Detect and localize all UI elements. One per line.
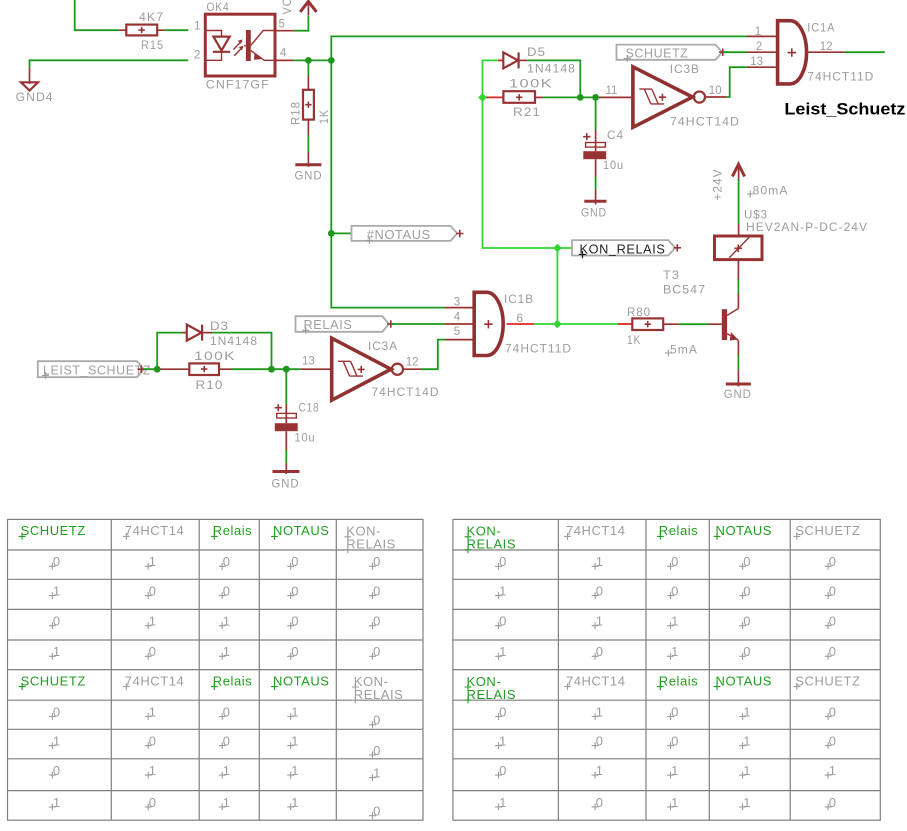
resistor R80 xyxy=(618,323,632,325)
svg-text:5: 5 xyxy=(454,326,460,338)
svg-text:0: 0 xyxy=(149,795,157,810)
resistor R18 xyxy=(307,60,309,76)
wire IC3B out to IC1A pin13 xyxy=(706,96,726,98)
wire D5 cathode down to R21 right node xyxy=(527,60,580,97)
svg-text:D5: D5 xyxy=(527,45,546,59)
svg-text:GND: GND xyxy=(295,169,323,183)
junction at R18 top xyxy=(305,57,312,64)
svg-text:0: 0 xyxy=(499,554,507,569)
IC3B input pin stub xyxy=(599,96,633,98)
svg-text:C18: C18 xyxy=(299,401,320,415)
svg-text:74HCT11D: 74HCT11D xyxy=(807,70,874,84)
svg-text:0: 0 xyxy=(223,554,231,569)
svg-text:1: 1 xyxy=(829,763,837,778)
svg-text:0: 0 xyxy=(373,614,381,629)
svg-text:Relais: Relais xyxy=(213,523,252,538)
svg-text:1: 1 xyxy=(149,614,157,629)
svg-text:0: 0 xyxy=(829,644,837,659)
svg-text:74HCT14: 74HCT14 xyxy=(566,523,626,538)
svg-text:0: 0 xyxy=(373,713,381,728)
resistor R10 xyxy=(161,368,233,370)
junction R21 left (highlighted) xyxy=(478,93,487,102)
svg-text:0: 0 xyxy=(596,734,604,749)
svg-text:3: 3 xyxy=(454,297,460,309)
wire SCHUETZ to IC1A pin2 xyxy=(723,51,747,53)
svg-text:GND: GND xyxy=(272,477,300,491)
svg-text:1: 1 xyxy=(373,766,381,781)
svg-text:1: 1 xyxy=(671,644,679,659)
svg-text:NOTAUS: NOTAUS xyxy=(716,523,773,538)
svg-text:4: 4 xyxy=(280,47,287,59)
wire IC1B output xyxy=(507,323,535,325)
svg-text:1K: 1K xyxy=(317,109,331,124)
IC3B hysteresis symbol xyxy=(639,89,664,104)
svg-text:1N4148: 1N4148 xyxy=(210,334,258,348)
junction at #NOTAUS xyxy=(328,230,335,237)
svg-text:C4: C4 xyxy=(607,128,624,142)
svg-text:1: 1 xyxy=(149,704,157,719)
svg-text:OK4: OK4 xyxy=(207,0,230,14)
wire R80 to T3 base xyxy=(679,323,709,325)
svg-text:11: 11 xyxy=(606,85,618,97)
svg-text:0: 0 xyxy=(149,734,157,749)
label KON_RELAIS xyxy=(572,240,675,255)
capacitor C4 xyxy=(595,97,597,130)
svg-text:1: 1 xyxy=(755,26,761,38)
svg-text:RELAIS: RELAIS xyxy=(467,687,517,702)
svg-text:T3: T3 xyxy=(663,268,680,282)
optocoupler OK4 box xyxy=(205,14,275,76)
ground GND below R18 xyxy=(295,163,321,166)
svg-text:R21: R21 xyxy=(513,105,541,119)
svg-text:12: 12 xyxy=(406,356,419,368)
svg-text:74HCT11D: 74HCT11D xyxy=(505,341,572,355)
svg-text:CNF17GF: CNF17GF xyxy=(206,78,270,92)
wire VCC to OK4 pin5 xyxy=(294,15,309,31)
junction IC1B output xyxy=(553,320,562,329)
svg-text:0: 0 xyxy=(499,763,507,778)
svg-text:80mA: 80mA xyxy=(753,184,789,198)
svg-text:SCHUETZ: SCHUETZ xyxy=(21,673,86,688)
svg-text:0: 0 xyxy=(743,554,751,569)
svg-text:NOTAUS: NOTAUS xyxy=(273,673,330,688)
svg-text:IC3B: IC3B xyxy=(670,62,700,76)
svg-text:0: 0 xyxy=(291,614,299,629)
svg-text:0: 0 xyxy=(743,614,751,629)
wire top-left vertical into R15 xyxy=(75,0,119,30)
svg-text:+24V: +24V xyxy=(711,169,725,201)
svg-text:RELAIS: RELAIS xyxy=(467,537,517,552)
wire RELAIS to IC1B pin4 xyxy=(391,323,445,325)
svg-text:1: 1 xyxy=(596,554,604,569)
resistor R21 xyxy=(483,96,504,98)
svg-text:VCC: VCC xyxy=(280,0,294,15)
svg-text:1K: 1K xyxy=(627,333,641,347)
svg-text:0: 0 xyxy=(499,704,507,719)
svg-text:100K: 100K xyxy=(194,349,236,363)
svg-text:10u: 10u xyxy=(295,431,316,445)
svg-text:0: 0 xyxy=(829,734,837,749)
wire R18 to GND xyxy=(307,135,309,152)
svg-text:0: 0 xyxy=(373,743,381,758)
svg-text:SCHUETZ: SCHUETZ xyxy=(795,523,860,538)
svg-text:10u: 10u xyxy=(603,158,624,172)
svg-text:0: 0 xyxy=(829,554,837,569)
svg-text:5: 5 xyxy=(279,18,285,30)
svg-text:1: 1 xyxy=(291,704,299,719)
label #NOTAUS xyxy=(352,226,458,241)
svg-text:0: 0 xyxy=(373,584,381,599)
svg-text:0: 0 xyxy=(53,554,61,569)
svg-text:NOTAUS: NOTAUS xyxy=(716,673,773,688)
op-amp IC1B (AND gate 74HCT11D) xyxy=(445,308,474,340)
junction at vertical net xyxy=(328,57,335,64)
svg-text:1: 1 xyxy=(194,20,200,32)
svg-text:0: 0 xyxy=(53,614,61,629)
wire R15 to OK4 pin1 xyxy=(165,29,189,31)
wire R21 to IC3B pin11 xyxy=(543,96,599,98)
wire LEIST_SCHUETZ to R10 xyxy=(144,368,161,370)
junction C4 branch xyxy=(592,94,599,101)
svg-text:0: 0 xyxy=(149,644,157,659)
svg-text:IC1A: IC1A xyxy=(807,21,835,35)
svg-text:1: 1 xyxy=(671,614,679,629)
label SCHUETZ xyxy=(617,45,723,60)
svg-text:SCHUETZ: SCHUETZ xyxy=(626,47,689,61)
svg-text:RELAIS: RELAIS xyxy=(346,537,396,552)
svg-text:0: 0 xyxy=(373,804,381,819)
junction D3 right xyxy=(268,366,275,373)
svg-text:0: 0 xyxy=(223,704,231,719)
svg-text:LEIST_SCHUETZ: LEIST_SCHUETZ xyxy=(43,363,151,377)
svg-text:4: 4 xyxy=(454,311,461,323)
wire T3 emitter to GND xyxy=(737,340,739,355)
wire OK4 pin4 east xyxy=(275,59,293,61)
svg-text:IC3A: IC3A xyxy=(368,339,398,353)
svg-text:74HCT14: 74HCT14 xyxy=(125,523,185,538)
svg-text:#NOTAUS: #NOTAUS xyxy=(367,228,431,242)
wire R10 to IC3A pin13 xyxy=(232,368,301,370)
wire main vertical net to IC1A pin1 and IC1B pin3 xyxy=(331,36,747,307)
svg-text:5mA: 5mA xyxy=(670,343,698,357)
junction KON_RELAIS xyxy=(553,244,562,253)
svg-text:HEV2AN-P-DC-24V: HEV2AN-P-DC-24V xyxy=(746,220,868,234)
svg-text:0: 0 xyxy=(291,644,299,659)
svg-text:0: 0 xyxy=(53,763,61,778)
svg-text:74HCT14D: 74HCT14D xyxy=(372,385,440,399)
svg-text:GND: GND xyxy=(581,206,607,220)
wire highlighted net KON_RELAIS xyxy=(483,97,573,248)
svg-text:1: 1 xyxy=(671,795,679,810)
svg-text:Leist_Schuetz: Leist_Schuetz xyxy=(784,100,905,118)
svg-text:0: 0 xyxy=(223,584,231,599)
svg-text:1: 1 xyxy=(53,644,61,659)
supply VCC arrow xyxy=(300,1,316,12)
svg-text:1: 1 xyxy=(743,795,751,810)
svg-text:1: 1 xyxy=(499,734,507,749)
svg-text:0: 0 xyxy=(671,704,679,719)
svg-text:R80: R80 xyxy=(627,305,651,319)
svg-text:0: 0 xyxy=(829,704,837,719)
svg-text:0: 0 xyxy=(223,734,231,749)
svg-text:R10: R10 xyxy=(196,378,224,392)
svg-text:IC1B: IC1B xyxy=(504,292,534,306)
svg-text:D3: D3 xyxy=(210,319,229,333)
svg-text:Relais: Relais xyxy=(213,673,252,688)
svg-text:NOTAUS: NOTAUS xyxy=(273,523,330,538)
svg-text:13: 13 xyxy=(750,56,763,68)
svg-text:1: 1 xyxy=(499,584,507,599)
wire D3 cathode down xyxy=(212,333,272,370)
svg-text:1: 1 xyxy=(223,763,231,778)
wire C4 to GND xyxy=(595,177,597,190)
svg-text:1: 1 xyxy=(291,795,299,810)
ground GND below T3 xyxy=(726,383,751,386)
inverter IC3B (74HCT14D) xyxy=(633,67,693,128)
wire IC3A out to IC1B pin5 xyxy=(403,368,421,370)
svg-text:74HCT14: 74HCT14 xyxy=(566,673,626,688)
OK4 light arrows xyxy=(233,41,243,56)
svg-text:2: 2 xyxy=(194,50,200,62)
svg-text:1: 1 xyxy=(743,763,751,778)
relay coil U$3 xyxy=(715,236,763,260)
OK4 LED xyxy=(205,31,221,61)
svg-text:1: 1 xyxy=(743,734,751,749)
svg-text:BC547: BC547 xyxy=(663,283,706,297)
svg-text:1N4148: 1N4148 xyxy=(527,62,576,76)
svg-text:1: 1 xyxy=(499,644,507,659)
svg-text:74HCT14: 74HCT14 xyxy=(125,673,185,688)
svg-text:0: 0 xyxy=(373,554,381,569)
resistor R15 xyxy=(119,29,165,31)
svg-text:1: 1 xyxy=(671,763,679,778)
ground GND below C4 xyxy=(584,200,606,203)
wire OK4 pin2 to GND4 xyxy=(30,60,189,67)
svg-text:KON_RELAIS: KON_RELAIS xyxy=(580,242,666,256)
svg-text:R15: R15 xyxy=(141,38,164,52)
svg-text:0: 0 xyxy=(596,795,604,810)
svg-text:13: 13 xyxy=(302,356,315,368)
inverter IC3A (74HCT14D) xyxy=(301,368,332,370)
svg-text:1: 1 xyxy=(223,795,231,810)
svg-text:0: 0 xyxy=(671,734,679,749)
diode D3 xyxy=(157,333,182,370)
svg-text:R18: R18 xyxy=(288,101,302,125)
svg-text:GND4: GND4 xyxy=(16,90,54,104)
svg-text:0: 0 xyxy=(829,614,837,629)
svg-text:0: 0 xyxy=(671,584,679,599)
wire stub to #NOTAUS label xyxy=(331,232,351,234)
svg-text:Relais: Relais xyxy=(659,673,698,688)
svg-text:0: 0 xyxy=(743,644,751,659)
ground GND4 xyxy=(29,68,31,84)
svg-text:1: 1 xyxy=(291,763,299,778)
svg-text:74HCT14D: 74HCT14D xyxy=(670,114,740,128)
OK4 phototransistor xyxy=(246,30,251,61)
ground GND below C18 xyxy=(273,470,300,473)
diode D5 xyxy=(483,60,498,97)
junction C18 branch xyxy=(283,366,290,373)
svg-text:1: 1 xyxy=(149,763,157,778)
svg-text:0: 0 xyxy=(291,584,299,599)
svg-text:0: 0 xyxy=(499,614,507,629)
svg-text:0: 0 xyxy=(596,584,604,599)
svg-text:1: 1 xyxy=(223,644,231,659)
svg-text:1: 1 xyxy=(53,734,61,749)
svg-text:100K: 100K xyxy=(509,77,553,91)
wire IC1A output xyxy=(807,51,845,53)
svg-text:4K7: 4K7 xyxy=(139,10,164,24)
wire C18 to GND xyxy=(285,450,287,463)
svg-text:0: 0 xyxy=(53,704,61,719)
truth table left xyxy=(8,519,424,820)
svg-text:0: 0 xyxy=(291,554,299,569)
svg-text:12: 12 xyxy=(820,41,833,53)
label RELAIS xyxy=(296,316,390,332)
svg-text:1: 1 xyxy=(149,554,157,569)
wire T3 collector to relay xyxy=(737,294,739,309)
svg-text:0: 0 xyxy=(829,795,837,810)
svg-text:SCHUETZ: SCHUETZ xyxy=(21,523,86,538)
svg-text:RELAIS: RELAIS xyxy=(304,318,353,332)
svg-text:1: 1 xyxy=(223,614,231,629)
svg-text:1: 1 xyxy=(743,704,751,719)
junction D3 branch xyxy=(154,366,161,373)
svg-text:RELAIS: RELAIS xyxy=(354,687,404,702)
svg-text:1: 1 xyxy=(499,795,507,810)
svg-text:1: 1 xyxy=(596,614,604,629)
svg-text:0: 0 xyxy=(596,644,604,659)
svg-text:0: 0 xyxy=(671,554,679,569)
svg-text:GND: GND xyxy=(724,387,752,401)
op-amp IC1A (AND gate 74HCT11D) xyxy=(747,36,777,67)
supply +24V arrow xyxy=(732,164,744,176)
svg-text:1: 1 xyxy=(53,584,61,599)
truth table right xyxy=(453,519,880,820)
label LEIST_SCHUETZ xyxy=(38,361,144,377)
svg-text:2: 2 xyxy=(756,41,762,53)
svg-text:0: 0 xyxy=(149,584,157,599)
junction D5 cathode xyxy=(577,94,584,101)
svg-text:0: 0 xyxy=(373,644,381,659)
svg-text:Relais: Relais xyxy=(659,523,698,538)
svg-text:10: 10 xyxy=(709,85,722,97)
capacitor C18 xyxy=(285,369,287,404)
svg-text:0: 0 xyxy=(829,584,837,599)
svg-text:1: 1 xyxy=(53,795,61,810)
svg-text:1: 1 xyxy=(291,734,299,749)
svg-text:1: 1 xyxy=(596,704,604,719)
svg-text:SCHUETZ: SCHUETZ xyxy=(795,673,860,688)
svg-text:0: 0 xyxy=(743,584,751,599)
svg-text:1: 1 xyxy=(596,763,604,778)
transistor T3 BC547 xyxy=(722,309,727,340)
IC3A hysteresis symbol xyxy=(338,361,363,376)
